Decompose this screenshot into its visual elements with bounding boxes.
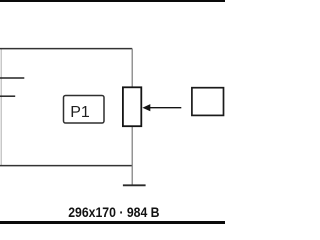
svg-text:P1: P1 <box>70 104 90 121</box>
